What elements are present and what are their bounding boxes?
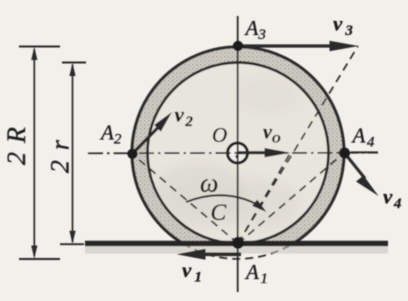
- dimension 2r vertical line with arrows: [72, 65, 74, 243]
- velocity vector v1 at A1 (points left, below rail): [205, 253, 241, 257]
- dashed line C to v3 tip: [238, 46, 358, 244]
- wheel interior (inside inner circle): [148, 63, 329, 244]
- velocity vector v4 at A4: [345, 153, 366, 179]
- dimension 2R top tick: [19, 46, 60, 48]
- svg-text:2R: 2R: [2, 118, 31, 165]
- svg-text:C: C: [211, 200, 227, 226]
- velocity vector v2 at A2: [133, 126, 161, 154]
- contact point C dot: [232, 237, 244, 249]
- dashed line C to A2: [132, 154, 238, 244]
- rail shadow stipple strip: [85, 246, 388, 254]
- inner circle r=90.5: [148, 63, 329, 244]
- velocity vector vO at O: [238, 151, 267, 154]
- dashed line C to A4: [238, 153, 345, 244]
- centerline solid segment under A4 label: [351, 151, 378, 153]
- omega rotation arc about C: [186, 195, 259, 205]
- dimension 2r top tick: [62, 62, 86, 64]
- outer circle solid arc (above rail) R=106: [132, 47, 344, 244]
- point A2 dot: [127, 149, 137, 159]
- hub small circle at O: [228, 143, 248, 163]
- interior mottling: [152, 163, 248, 227]
- point A4 dot: [339, 148, 350, 159]
- point A3 dot: [233, 41, 243, 51]
- vertical centerline: [237, 16, 239, 292]
- dimension 2R bottom tick: [19, 258, 60, 260]
- hub center dot: [235, 155, 238, 158]
- dashed line C to vO tip: [238, 153, 291, 244]
- svg-text:2r: 2r: [45, 130, 74, 173]
- svg-text:ω: ω: [200, 169, 218, 198]
- dimension 2R vertical line with arrows: [33, 49, 35, 257]
- dimension 2r bottom tick: [60, 243, 84, 245]
- velocity vector v3 at A3: [239, 44, 332, 47]
- svg-text:O: O: [212, 123, 227, 147]
- omega arc arrowhead: [252, 200, 266, 212]
- horizontal centerline (dash-dot): [88, 152, 378, 155]
- wheel rim annulus (between outer R and inner r circles), stippled grey, clipped above rail: [132, 47, 344, 259]
- rail (ground) line: [85, 241, 388, 247]
- outer circle dashed arc (below rail, flange dips under rail head): [183, 244, 293, 259]
